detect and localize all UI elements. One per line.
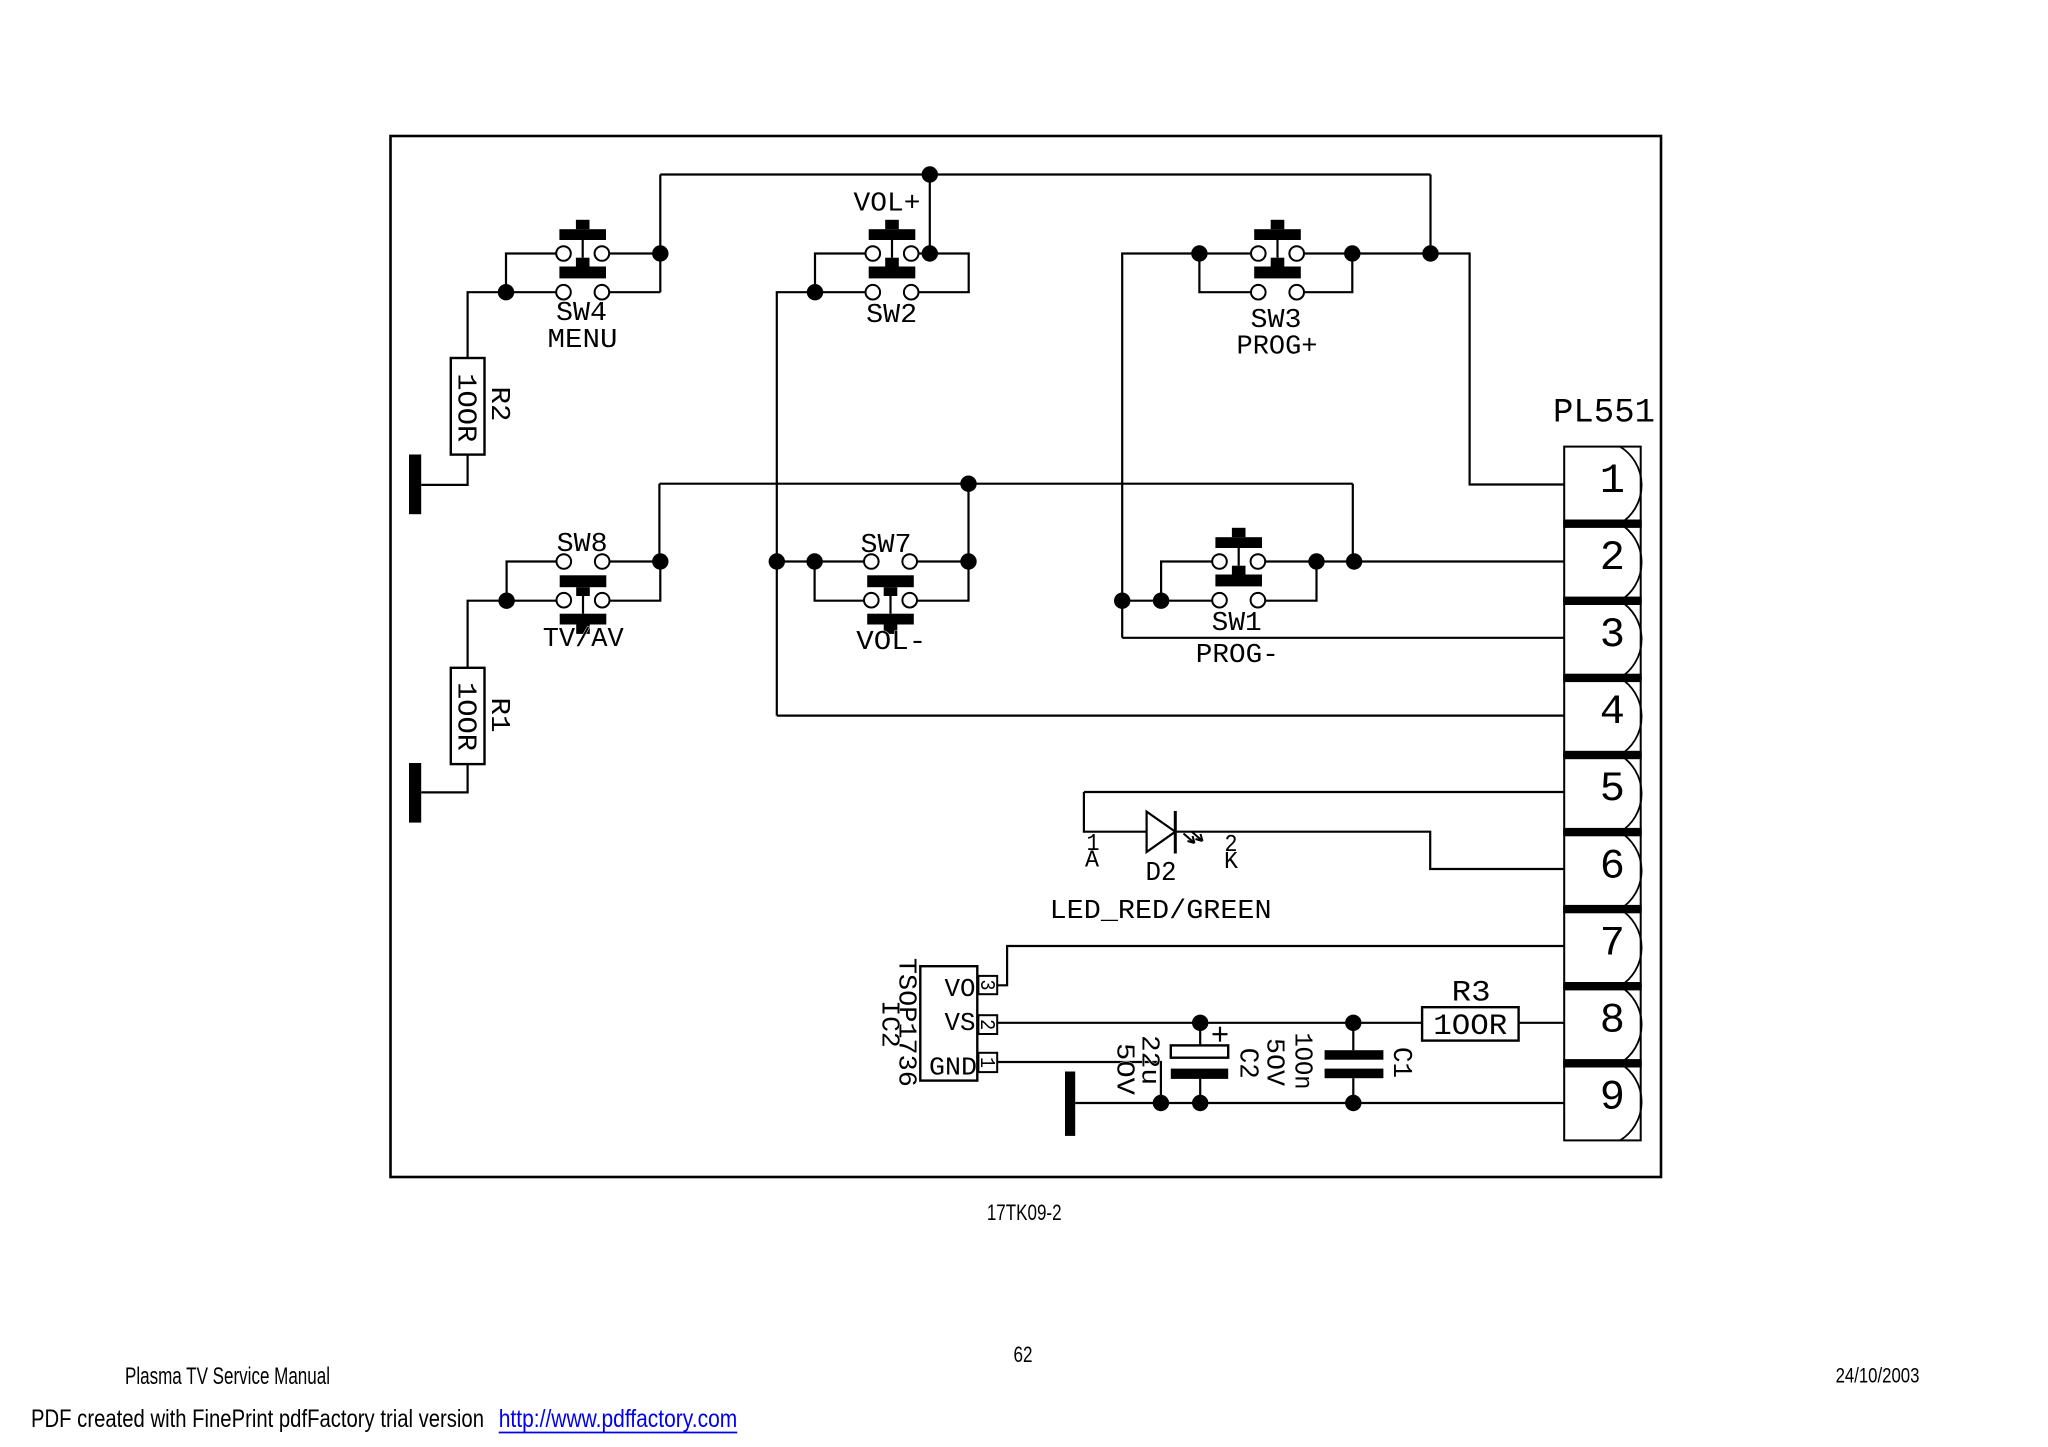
svg-text:1OOR: 1OOR [449, 373, 479, 442]
label SW7 [861, 531, 912, 561]
node SW8 left junction [498, 593, 514, 609]
svg-text:5OV: 5OV [1110, 1043, 1140, 1095]
svg-text:SW3: SW3 [1251, 306, 1302, 336]
node C1 top junction [1345, 1015, 1361, 1031]
pin label 1 (anode) [1087, 831, 1100, 858]
wire VS to pin8 net [997, 1022, 1422, 1024]
connector PL551 body [1564, 447, 1641, 1141]
node C2 bottom junction [1192, 1095, 1208, 1111]
wire SW7 left loop [815, 562, 864, 601]
label VS [945, 1008, 976, 1038]
svg-text:VOL-: VOL- [856, 628, 926, 658]
LED light arrows [1184, 832, 1203, 844]
IC2 pin 3 box [978, 976, 997, 994]
wire SW3 far-right vertical [1429, 175, 1431, 254]
wire SW8 lower-left [507, 600, 557, 602]
node SW2 left junction [807, 284, 823, 300]
svg-text:SW4: SW4 [556, 299, 607, 329]
label SW8 [557, 530, 608, 560]
svg-text:3: 3 [1600, 611, 1625, 659]
caption 17TK09-2 [987, 1200, 1062, 1225]
label VOL+ [854, 189, 921, 219]
svg-text:PL551: PL551 [1553, 395, 1655, 433]
capacitor C2 bottom lead [1199, 1079, 1201, 1103]
resistor R1 [451, 668, 485, 764]
svg-text:SW2: SW2 [866, 301, 917, 331]
wire SW2 upper-left [815, 254, 866, 293]
wire SW3-left vertical to pin3 net [1122, 254, 1199, 638]
capacitor C1 top lead [1352, 1023, 1354, 1050]
svg-text:7: 7 [1600, 919, 1625, 967]
switch SW8 [557, 554, 610, 634]
label R1 [483, 698, 513, 733]
resistor R3 [1422, 1007, 1519, 1040]
label TV/AV [543, 625, 625, 655]
capacitor C1 plate top [1325, 1050, 1384, 1060]
wire SW3 upper-right [1304, 252, 1352, 254]
resistor R2 [451, 358, 485, 455]
svg-text:TV/AV: TV/AV [543, 625, 625, 655]
IC U-IC2 body [920, 966, 977, 1080]
svg-text:1OOR: 1OOR [1433, 1010, 1507, 1044]
IC2 pin 1 number [974, 1057, 997, 1068]
label GND [929, 1052, 977, 1082]
IC2 pin 3 number [974, 980, 997, 991]
pin label A [1085, 847, 1100, 874]
node SW3 right junction [1344, 245, 1360, 261]
wire SW2 right loop [919, 254, 969, 293]
node SW1 right junction B [1346, 553, 1362, 569]
wire R1 to ground [421, 764, 467, 792]
svg-text:1OOR: 1OOR [449, 682, 479, 751]
switch SW3 [1251, 220, 1304, 300]
label C1 [1385, 1047, 1415, 1078]
label PROG+ [1237, 332, 1318, 362]
node C2 top junction [1192, 1015, 1208, 1031]
wire SW8 upper-right [610, 560, 661, 562]
wire SW7 upper-right [917, 560, 969, 562]
wire SW1 lower-left [1122, 600, 1212, 602]
wire SW3 right to far node [1352, 252, 1430, 254]
node SW7 left junction A [769, 553, 785, 569]
svg-text:MENU: MENU [548, 326, 618, 356]
LED D2 triangle [1147, 812, 1176, 852]
capacitor C1 plate bottom [1325, 1069, 1384, 1079]
wire SW1 upper-right [1265, 560, 1316, 562]
wire R2 to ground [421, 455, 467, 485]
switch SW1 [1212, 528, 1265, 608]
svg-text:PROG+: PROG+ [1237, 332, 1318, 362]
label SW3 [1251, 306, 1302, 336]
wire SW2 lower-left [815, 291, 866, 293]
svg-text:SW7: SW7 [861, 531, 912, 561]
svg-text:http://www.pdffactory.com: http://www.pdffactory.com [499, 1405, 738, 1433]
node SW3 far-right junction [1422, 245, 1438, 261]
svg-text:5: 5 [1600, 765, 1625, 813]
wire SW3 left loop [1199, 254, 1251, 293]
wire SW2 upper-right [919, 252, 930, 254]
IC2 pin 1 box [978, 1053, 997, 1072]
label SW2 [866, 301, 917, 331]
node SW2 right junction [922, 245, 938, 261]
ground bar bottom [1065, 1072, 1075, 1136]
switch SW4 [556, 220, 609, 300]
LED D2 cathode bar [1174, 811, 1177, 854]
footer Plasma TV Service Manual [125, 1363, 330, 1390]
pin label K [1224, 849, 1239, 876]
wire middle bus SW7 drop [967, 484, 969, 562]
wire SW4 right vertical [659, 175, 661, 293]
wire SW1 upper-left loop [1161, 562, 1212, 601]
switch SW7 [864, 554, 917, 634]
svg-text:C1: C1 [1385, 1047, 1415, 1078]
svg-text:LED_RED/GREEN: LED_RED/GREEN [1050, 897, 1272, 927]
svg-text:1OOn: 1OOn [1287, 1033, 1317, 1090]
label R2 value 100R [449, 373, 479, 442]
wire middle bus [659, 483, 1352, 485]
svg-text:8: 8 [1600, 996, 1625, 1044]
svg-text:R2: R2 [483, 387, 513, 422]
node SW1 left junction B [1153, 593, 1169, 609]
label PL551 [1553, 395, 1655, 433]
svg-text:K: K [1224, 849, 1239, 876]
wire SW4 lower-right loop [609, 291, 660, 293]
capacitor C1 bottom lead [1352, 1078, 1354, 1103]
svg-text:A: A [1085, 847, 1100, 874]
node junction top bus / SW2 [922, 166, 938, 182]
footer PDF created line [31, 1405, 484, 1433]
label C2 [1232, 1048, 1262, 1079]
label IC2 [874, 1000, 904, 1048]
node SW7 left junction B [806, 553, 822, 569]
label VO [945, 974, 976, 1004]
label PROG- [1196, 641, 1279, 671]
page number 62 [1014, 1342, 1033, 1367]
svg-text:D2: D2 [1146, 859, 1177, 889]
svg-text:1: 1 [974, 1057, 997, 1068]
svg-text:4: 4 [1600, 688, 1625, 736]
node SW4 left junction [498, 284, 514, 300]
label D2 [1146, 859, 1177, 889]
label TSOP1736 [891, 958, 921, 1087]
label SW1 [1212, 609, 1262, 639]
ground bar for R2 [409, 455, 421, 515]
wire SW2-left long vertical to pin4 net [777, 292, 815, 715]
wire LED anode [1084, 792, 1147, 832]
wire pin3 net [1122, 637, 1564, 639]
label VOL- [856, 628, 926, 658]
svg-text:Plasma TV Service Manual: Plasma TV Service Manual [125, 1363, 330, 1390]
wire SW4 upper-right [609, 252, 660, 254]
svg-text:SW8: SW8 [557, 530, 608, 560]
svg-text:R3: R3 [1452, 976, 1491, 1010]
schematic sheet border [391, 136, 1662, 1177]
wire SW8 upper-left [507, 562, 557, 601]
pin label 2 (cathode) [1225, 832, 1238, 859]
svg-text:VO: VO [945, 974, 976, 1004]
wire pin4 net [777, 714, 1564, 716]
wire GND pin [997, 1062, 1161, 1103]
wire SW7 right loop [917, 562, 969, 601]
wire SW3 right loop [1304, 254, 1352, 293]
svg-text:6: 6 [1600, 842, 1625, 890]
node middle bus / SW7 junction [960, 476, 976, 492]
svg-text:IC2: IC2 [874, 1000, 904, 1048]
wire pin5 net [1084, 791, 1564, 793]
wire SW2 right vertical [929, 175, 931, 254]
IC2 pin 2 box [978, 1015, 997, 1034]
capacitor C2 negative plate [1171, 1069, 1228, 1079]
svg-text:17TK09-2: 17TK09-2 [987, 1200, 1062, 1225]
node GND junction [1153, 1095, 1169, 1111]
svg-text:GND: GND [929, 1052, 977, 1082]
wire SW8 right loop [610, 562, 661, 601]
wire middle bus right drop [1352, 484, 1354, 562]
svg-text:SW1: SW1 [1212, 609, 1262, 639]
wire SW1 right loop [1265, 562, 1316, 601]
svg-text:9: 9 [1600, 1074, 1625, 1122]
svg-text:3: 3 [974, 980, 997, 991]
svg-text:PROG-: PROG- [1196, 641, 1279, 671]
wire SW7 left [777, 560, 864, 562]
wire ground bus to pin9 [1075, 1102, 1564, 1104]
label C1 voltage 50V [1259, 1038, 1289, 1086]
wire R3 to pin8 [1519, 1022, 1565, 1024]
wire LED cathode to pin6 [1175, 832, 1564, 869]
svg-text:1: 1 [1600, 457, 1625, 505]
svg-text:24/10/2003: 24/10/2003 [1836, 1364, 1920, 1387]
label SW4 [556, 299, 607, 329]
node SW7 right junction [960, 553, 976, 569]
switch SW2 [866, 220, 919, 300]
node SW4 right junction [652, 245, 668, 261]
wire SW8 to R1 [468, 601, 507, 668]
wire SW4 lower-left [506, 291, 556, 293]
capacitor C2 top lead [1199, 1023, 1201, 1046]
connector PL551 pin separators [1563, 520, 1642, 1068]
label R1 value 100R [449, 682, 479, 751]
label MENU [548, 326, 618, 356]
label R3 value 100R [1433, 1010, 1507, 1044]
wire SW4 upper-left [506, 254, 556, 293]
svg-text:PDF created with FinePrint pdf: PDF created with FinePrint pdfFactory tr… [31, 1405, 484, 1433]
C2 plus sign [1213, 1027, 1228, 1042]
svg-text:R1: R1 [483, 698, 513, 733]
label C1 value 100n [1287, 1033, 1317, 1090]
footer pdffactory url [499, 1405, 738, 1433]
svg-text:C2: C2 [1232, 1048, 1262, 1079]
label C2 value 22u [1135, 1035, 1165, 1085]
connector PL551 pin numbers [1600, 457, 1625, 1122]
ground bar for R1 [409, 763, 421, 823]
node SW3 left junction [1191, 245, 1207, 261]
wire VO to pin7 net [997, 946, 1564, 985]
wire pin1 net [1431, 254, 1565, 485]
svg-text:2: 2 [974, 1019, 997, 1030]
label C2 voltage 50V [1110, 1043, 1140, 1095]
node SW1 left junction A [1114, 593, 1130, 609]
svg-text:2: 2 [1600, 534, 1625, 582]
footer date 24/10/2003 [1836, 1364, 1920, 1387]
node SW1 right junction A [1308, 553, 1324, 569]
wire middle bus left drop [658, 484, 660, 562]
label R2 [483, 387, 513, 422]
wire SW3 upper-left [1199, 252, 1251, 254]
node SW8 right junction [652, 553, 668, 569]
wire pin2 net [1317, 560, 1565, 562]
label LED_RED/GREEN [1050, 897, 1272, 927]
svg-text:5OV: 5OV [1259, 1038, 1289, 1086]
svg-text:VS: VS [945, 1008, 976, 1038]
IC2 pin 2 number [974, 1019, 997, 1030]
node C1 bottom junction [1345, 1095, 1361, 1111]
capacitor C2 positive plate [1171, 1045, 1228, 1057]
wire SW4 to R2 [468, 292, 506, 358]
svg-text:62: 62 [1014, 1342, 1033, 1367]
label R3 [1452, 976, 1491, 1010]
svg-text:VOL+: VOL+ [854, 189, 921, 219]
wire top bus to pin1 net [660, 173, 1430, 175]
